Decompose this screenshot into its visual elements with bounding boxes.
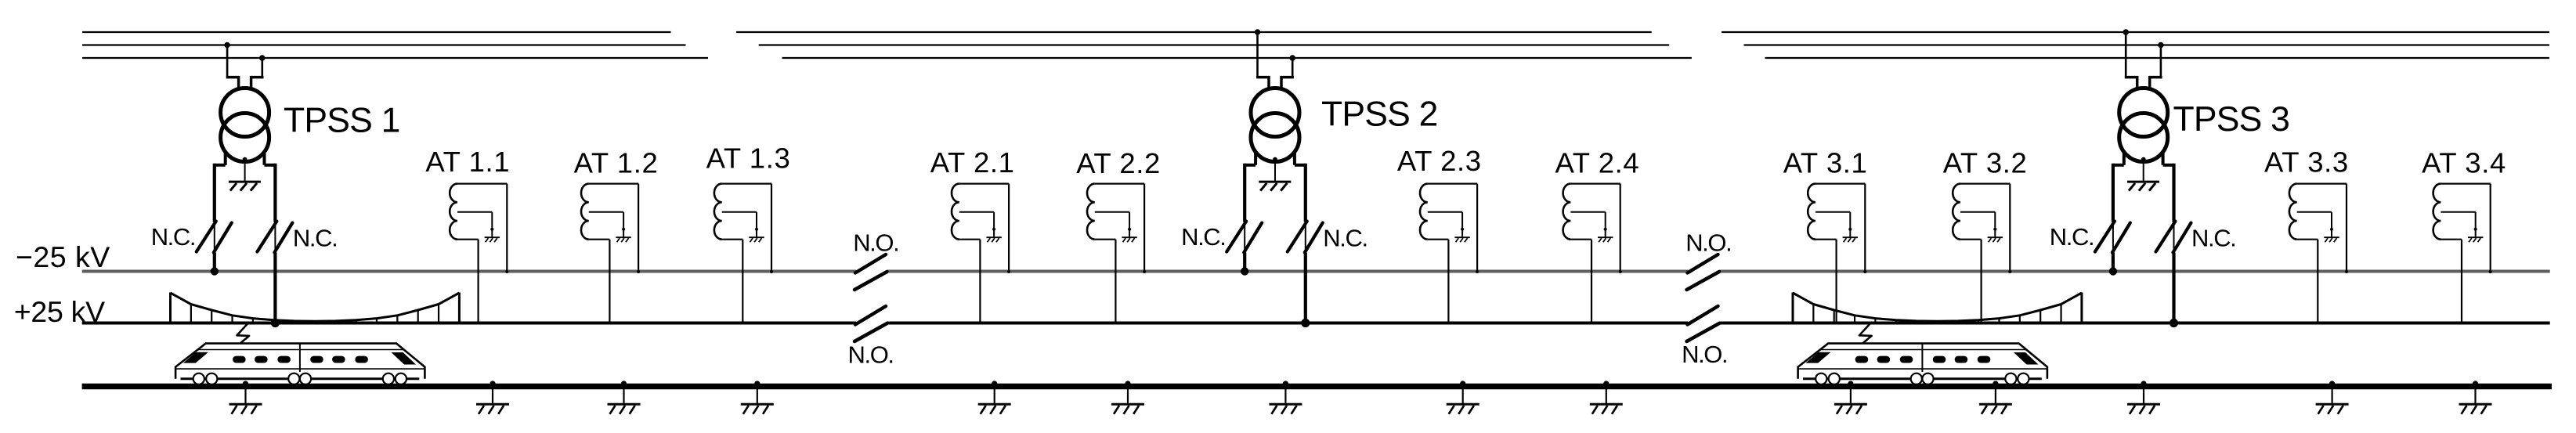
svg-text:AT 2.3: AT 2.3 xyxy=(1397,145,1482,177)
svg-text:N.C.: N.C. xyxy=(293,225,337,252)
svg-text:N.O.: N.O. xyxy=(1685,229,1731,256)
svg-text:+25 kV: +25 kV xyxy=(14,295,105,328)
svg-text:AT 1.1: AT 1.1 xyxy=(425,146,510,178)
svg-text:N.C.: N.C. xyxy=(1181,223,1225,251)
svg-text:AT 1.2: AT 1.2 xyxy=(574,147,659,179)
svg-text:AT 3.4: AT 3.4 xyxy=(2422,146,2506,179)
svg-text:N.C.: N.C. xyxy=(1323,225,1367,252)
svg-text:N.C.: N.C. xyxy=(2050,223,2094,251)
svg-text:TPSS 1: TPSS 1 xyxy=(284,102,400,140)
svg-text:AT 1.3: AT 1.3 xyxy=(706,143,791,175)
svg-text:AT 2.2: AT 2.2 xyxy=(1076,147,1161,179)
svg-text:AT 3.3: AT 3.3 xyxy=(2264,146,2349,178)
svg-text:N.O.: N.O. xyxy=(1682,341,1727,368)
svg-text:N.O.: N.O. xyxy=(848,341,894,368)
svg-text:N.C.: N.C. xyxy=(151,223,195,251)
svg-text:AT 3.1: AT 3.1 xyxy=(1783,147,1868,179)
svg-text:−25 kV: −25 kV xyxy=(16,240,110,273)
svg-text:AT 2.4: AT 2.4 xyxy=(1555,147,1640,179)
svg-text:N.O.: N.O. xyxy=(853,229,898,256)
svg-text:N.C.: N.C. xyxy=(2191,225,2235,252)
svg-text:TPSS 2: TPSS 2 xyxy=(1321,96,1438,134)
svg-text:AT 2.1: AT 2.1 xyxy=(930,146,1015,179)
svg-text:TPSS 3: TPSS 3 xyxy=(2173,100,2290,139)
svg-text:AT 3.2: AT 3.2 xyxy=(1943,147,2028,179)
